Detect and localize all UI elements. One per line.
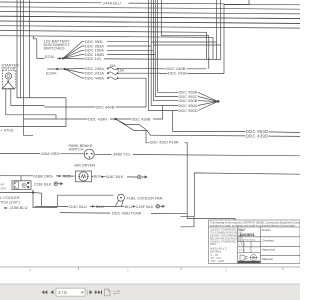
connector symbol end of 618C: [137, 175, 141, 179]
svg-text:343A ORG: 343A ORG: [41, 151, 60, 156]
do not scale bar: [238, 261, 260, 264]
node splice: [217, 100, 220, 103]
starter motor lead 1: [6, 88, 56, 119]
wire V2: [151, 0, 162, 106]
svg-text:343B YCL: 343B YCL: [113, 151, 132, 156]
relay K1 box: [12, 181, 31, 190]
wire bus L1 244A BLU: [0, 0, 300, 74]
svg-text:213F BLK: 213F BLK: [136, 204, 154, 209]
vertical bus x17 to hook: [0, 0, 66, 126]
wire V3: [153, 0, 175, 101]
svg-text:DDC 241B: DDC 241B: [168, 71, 187, 76]
node ECM- junction: [62, 57, 64, 59]
svg-text:DDC 440B: DDC 440B: [96, 104, 115, 109]
node 439 junction: [114, 118, 116, 120]
node ECM+ junctions: [56, 68, 58, 70]
svg-text:Approved: Approved: [262, 248, 275, 252]
riser to fuel fan wire: [57, 195, 113, 206]
svg-text:RED: RED: [63, 173, 71, 178]
wire hook x20.5 to 439H: [20, 0, 22, 98]
node 161/240B junction: [208, 58, 210, 60]
toolbar doc icon: [105, 289, 111, 296]
wire bus L4: [0, 16, 300, 18]
svg-text:Checked: Checked: [262, 238, 274, 242]
svg-text:DDC 439B: DDC 439B: [132, 117, 151, 122]
wire ECM- arrow: [57, 57, 62, 59]
svg-text:4: 4: [29, 269, 31, 273]
fuel cooler fan motor: [118, 194, 125, 201]
svg-text:15A: 15A: [118, 68, 125, 72]
svg-text:Material: Material: [262, 257, 273, 261]
wire hook x23.5: [24, 0, 34, 135]
svg-text:± 1 .2: ± 1 .2: [239, 249, 246, 252]
svg-text:1: 1: [127, 269, 129, 273]
arrow 618B: [58, 175, 62, 177]
air dryer wire 618B: [0, 175, 75, 177]
park brake wire 343B: [95, 154, 300, 156]
svg-text:2 / 5: 2 / 5: [58, 290, 67, 295]
svg-text:10/15/01: 10/15/01: [240, 232, 256, 237]
svg-text:213E BLK: 213E BLK: [34, 181, 52, 186]
svg-text:HP: HP: [1, 183, 5, 187]
toolbar last page button: [95, 290, 98, 294]
fuse F2 15A: [108, 72, 118, 74]
wire row y174 right: [194, 173, 300, 216]
wire below relay: [0, 190, 57, 208]
title block dividers: [209, 227, 301, 264]
svg-text:ECM-: ECM-: [45, 54, 56, 59]
wire ECM- bracket: [33, 36, 44, 59]
projection symbol: [240, 255, 258, 261]
svg-text:DDC 440A: DDC 440A: [85, 75, 104, 80]
svg-text:FUEL COOLER FAN: FUEL COOLER FAN: [127, 195, 163, 200]
wire 213C BLU row: [35, 205, 156, 207]
svg-text:DDC 161: DDC 161: [85, 56, 101, 61]
small revision box left of title block: [181, 216, 195, 227]
svg-text:to given or to work, or change: to given or to work, or change and model…: [210, 225, 296, 228]
svg-text:ECM+: ECM+: [46, 71, 58, 76]
wire DDC 440B row: [45, 106, 147, 108]
label STARTER MOTOR: [2, 63, 20, 70]
toolbar next page button: [90, 290, 93, 294]
svg-text:15A: 15A: [110, 64, 117, 68]
svg-text:FIED.: FIED.: [210, 243, 217, 246]
svg-text:DDC 439D: DDC 439D: [246, 133, 268, 138]
starter motor dashed box: [2, 70, 15, 88]
svg-text:BLU: BLU: [96, 204, 104, 209]
svg-text:BLU: BLU: [125, 204, 133, 209]
wire DDC 439J bottom row: [60, 213, 187, 214]
fan of DDC 953A/953C/950B/950A/950D: [163, 92, 217, 110]
ECM- fan wires: [63, 42, 149, 59]
wire DDC 953D row: [173, 111, 300, 133]
sheet border ruler: [0, 267, 300, 273]
svg-text:MOTOR: MOTOR: [2, 67, 16, 71]
label 12V BATTERY DISCONNECT SWITCHES: [44, 39, 71, 51]
air dryer box: [76, 171, 92, 182]
wire gather verticals: [217, 0, 221, 59]
wire DDC 439D row: [150, 135, 300, 136]
svg-text:215B BLU: 215B BLU: [10, 205, 28, 210]
wire DDC 439H row: [24, 106, 163, 120]
svg-text:213C BLU: 213C BLU: [69, 204, 87, 209]
wire V5: [158, 0, 173, 92]
svg-text:2: 2: [225, 269, 227, 273]
tolerance grid: [238, 242, 261, 253]
park brake wire 343A: [0, 152, 84, 154]
svg-text:ORG: ORG: [1, 187, 7, 191]
svg-text:AIR DRYER: AIR DRYER: [75, 164, 96, 168]
wire bus L3: [0, 12, 300, 14]
svg-text:SWITCH: SWITCH: [69, 147, 84, 151]
wire 439 branch to 439J top: [116, 119, 236, 221]
wire bus L7: [0, 31, 207, 60]
starter motor lead 2: [11, 88, 45, 105]
wire 618C BLK: [92, 176, 138, 178]
label relay pins: [1, 183, 7, 191]
air dryer motor circle: [79, 172, 88, 181]
wire bus L8: [0, 36, 213, 60]
svg-text:.XXX : .0025: .XXX : .0025: [210, 260, 225, 263]
connector end 213F: [156, 205, 159, 208]
left column text: [210, 229, 246, 263]
svg-text:DDC 439J P1NK: DDC 439J P1NK: [112, 211, 142, 216]
wire staircase c: [151, 41, 217, 43]
svg-text:TCH (190°): TCH (190°): [0, 200, 20, 205]
svg-text:BLK: BLK: [94, 174, 102, 179]
toolbar first page button: [42, 290, 45, 294]
toolbar separator: [86, 289, 88, 295]
svg-text:+ E .5: + E .5: [239, 244, 246, 247]
svg-text:DDC 439J P1NK: DDC 439J P1NK: [150, 140, 180, 145]
svg-text:DDC 439H: DDC 439H: [88, 117, 107, 122]
label PARK BRAKE SWITCH: [69, 144, 93, 151]
svg-text:618C BLK: 618C BLK: [106, 174, 124, 179]
toolbar faint icon: [113, 290, 120, 295]
starter solenoid: [2, 82, 14, 89]
wire V4: [155, 0, 174, 97]
fuse F3: [108, 77, 118, 79]
toolbar page field: [56, 288, 85, 296]
toolbar prev page button: [50, 290, 53, 294]
svg-text:618B ORG: 618B ORG: [34, 173, 53, 178]
vertical bus mid V1 feeding fan: [149, 0, 173, 111]
air dryer feed from 618 row: [20, 176, 22, 181]
starter motor M circle: [5, 73, 11, 79]
park brake switch symbol: [84, 149, 94, 159]
wire staircase a: [161, 0, 208, 69]
wire 213E BLK connector: [54, 182, 57, 185]
svg-text:Drl tol Rel tol Ang: Drl tol Rel tol Ang: [238, 239, 256, 242]
fuse F1 15A: [108, 67, 118, 69]
wire ECM+ feed x29.5: [30, 0, 65, 98]
wire bus L5: [0, 21, 300, 23]
ECM+ fan wires: [65, 68, 207, 71]
svg-text:244A BLU: 244A BLU: [103, 0, 121, 5]
title block outer box: [209, 220, 301, 264]
wire bus L6: [0, 26, 300, 28]
svg-text:Drawn: Drawn: [262, 228, 271, 232]
svg-text:SWITCHES: SWITCHES: [44, 46, 65, 51]
label OIL COOLER SWITCH: [0, 195, 20, 205]
wire staircase d: [153, 44, 221, 46]
wire bus L2: [0, 7, 300, 9]
svg-text:DDC 950D: DDC 950D: [179, 108, 198, 113]
svg-text:+' STUD: +' STUD: [0, 129, 14, 133]
